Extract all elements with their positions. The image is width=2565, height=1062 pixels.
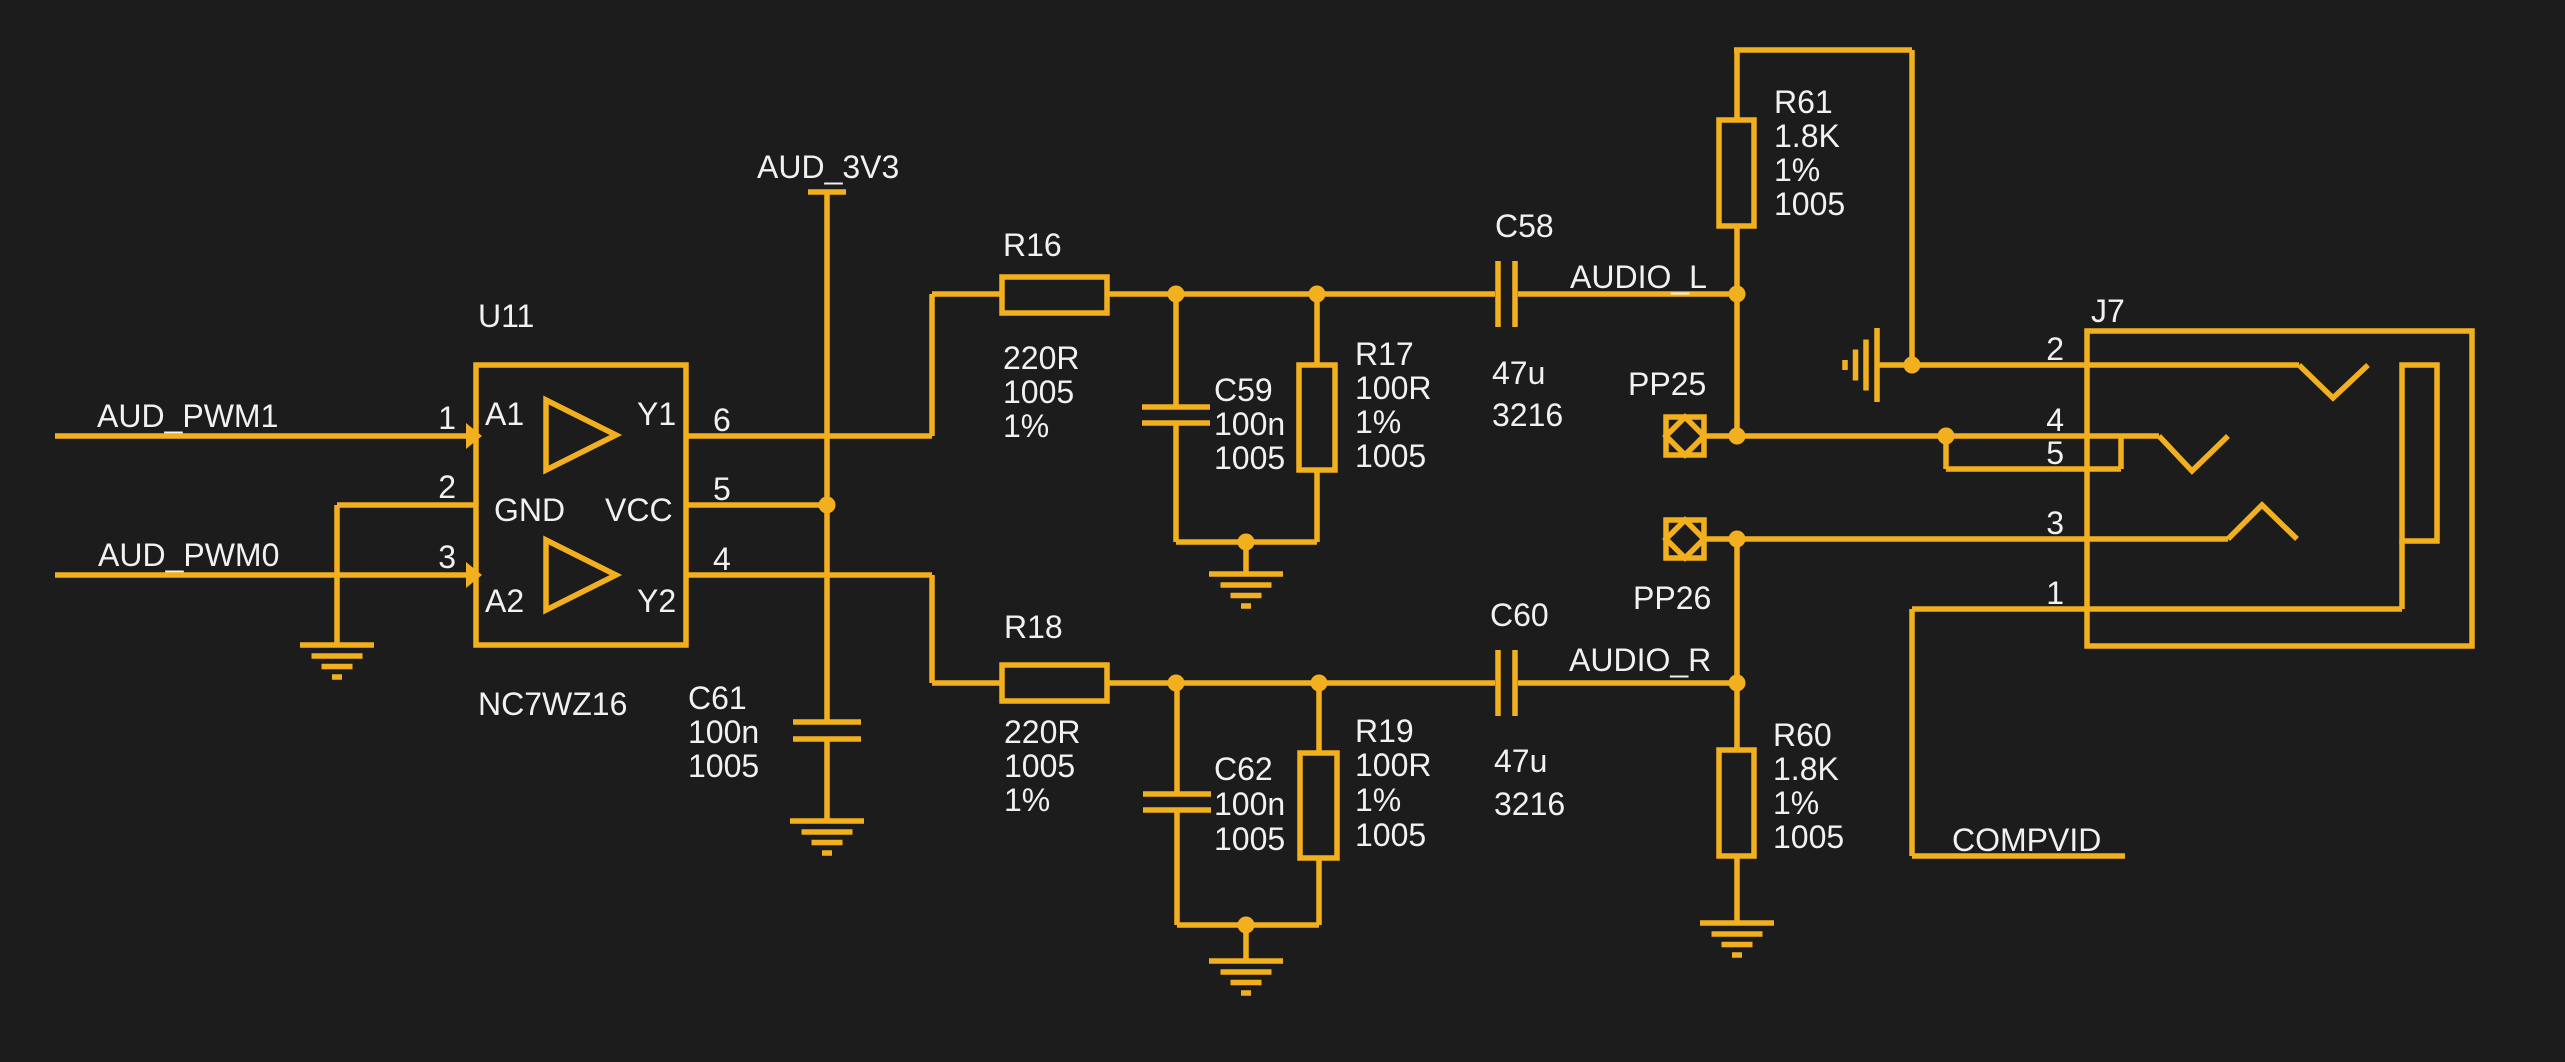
svg-text:R19: R19 [1355,713,1414,749]
wire C59/R17 bottom node [1176,539,1317,545]
capacitor C61 [793,722,861,739]
wire down to pin 5 level [1943,436,1949,469]
wire R61 rail down to pin 2 node [1909,50,1915,365]
test point PP25 [1666,417,1704,455]
svg-text:R16: R16 [1003,227,1062,263]
svg-text:AUD_PWM1: AUD_PWM1 [97,398,278,434]
svg-text:1005: 1005 [1004,748,1075,784]
svg-text:1005: 1005 [1773,819,1844,855]
svg-text:1005: 1005 [1003,374,1074,410]
wire junction down to R19 [1316,683,1322,753]
svg-text:1%: 1% [1355,782,1401,818]
svg-text:1005: 1005 [1214,440,1285,476]
wire R19 to bottom node [1316,858,1322,925]
junction pin4/pin5 split [1938,428,1955,445]
svg-text:5: 5 [713,471,731,507]
wire AUDIO_R down to R60 [1734,683,1740,750]
svg-text:5: 5 [2046,435,2064,471]
junction bottom node left channel [1238,534,1255,551]
wire PP26 to jack pin 3 [1704,536,2228,542]
svg-text:C58: C58 [1495,208,1554,244]
svg-text:3: 3 [438,539,456,575]
svg-text:3: 3 [2046,505,2064,541]
resistor R61 [1719,120,1754,226]
wire pin 4 down to R18 [929,575,935,683]
wire to R18 left [932,680,1002,686]
wire junction down to C62 [1174,683,1180,794]
svg-text:GND: GND [494,492,565,528]
wire R60 to ground [1734,856,1740,923]
resistor R17 [1299,365,1335,470]
svg-text:U11: U11 [478,298,534,334]
svg-text:100n: 100n [1214,786,1285,822]
svg-text:PP26: PP26 [1633,580,1711,616]
R19 value labels [1355,747,1432,853]
svg-text:AUDIO_R: AUDIO_R [1569,642,1711,678]
wire C59 to bottom node [1173,423,1179,542]
wire U11 pin 6 Y1 output [686,433,932,439]
wire to jack pin 5 [1946,466,2121,472]
op-amp U11 body [476,365,686,645]
svg-text:R61: R61 [1774,84,1833,120]
wire pin 2 into jack [1912,362,2299,368]
svg-text:PP25: PP25 [1628,366,1706,402]
svg-text:2: 2 [438,469,456,505]
wire U11 pin 4 Y2 output [686,572,932,578]
capacitor C62 [1143,794,1211,810]
svg-text:47u: 47u [1492,355,1545,391]
wire C58 to AUDIO_L node [1518,291,1737,297]
buffer triangle 1 [546,400,616,470]
wire C62/R19 bottom node [1177,922,1319,928]
wire AUD_3V3 down to C61 [824,192,830,722]
svg-text:6: 6 [713,402,731,438]
R60 value labels [1773,751,1844,855]
svg-text:1.8K: 1.8K [1773,751,1839,787]
wire U11 pin 2 horizontal [337,502,476,508]
C58 value labels [1492,355,1545,391]
capacitor C62 value labels [1214,751,1285,857]
svg-text:AUDIO_L: AUDIO_L [1570,259,1707,295]
svg-text:C61: C61 [688,680,747,716]
wire bottom node to ground [1243,542,1249,574]
wire C61 to ground [824,739,830,821]
wire C60 to AUDIO_R node [1518,680,1737,686]
wire R18 to C60 [1107,680,1495,686]
svg-text:C59: C59 [1214,372,1273,408]
svg-text:R17: R17 [1355,336,1414,372]
junction R16 / C59 [1168,286,1185,303]
svg-text:AUD_PWM0: AUD_PWM0 [98,537,279,573]
jack sleeve bar [2402,365,2437,541]
capacitor C58 [1498,261,1515,327]
wire AUDIO_L down to PP25 node [1734,294,1740,436]
svg-text:1%: 1% [1774,152,1820,188]
svg-text:100R: 100R [1355,747,1432,783]
svg-text:100n: 100n [1214,406,1285,442]
wire COMPVID stub [1912,853,2125,859]
wire jack pin 1 [1912,606,2402,612]
resistor R16 [1002,277,1107,313]
pin 1 input arrow [466,423,482,449]
jack pin 2 contact [2299,365,2368,398]
wire PP26 node down to AUDIO_R [1734,539,1740,683]
svg-text:AUD_3V3: AUD_3V3 [757,149,899,185]
resistor R60 [1719,750,1754,856]
connector J7 body [2087,331,2472,646]
svg-text:3216: 3216 [1492,397,1563,433]
junction AUDIO_L node [1729,286,1746,303]
wire C62 to bottom node [1174,810,1180,925]
resistor R18 [1002,665,1107,701]
svg-text:VCC: VCC [605,492,673,528]
svg-text:1005: 1005 [1774,186,1845,222]
ground below C62/R19 [1209,961,1283,993]
wire ground to pin 2 node [1877,362,1912,368]
svg-text:4: 4 [713,541,731,577]
svg-text:COMPVID: COMPVID [1952,822,2101,858]
junction R18 / C62 [1168,675,1185,692]
wire pin 6 up to R16 [929,294,935,436]
svg-text:1%: 1% [1773,785,1819,821]
wire sleeve to pin 1 [2399,541,2405,609]
svg-text:1%: 1% [1355,404,1401,440]
svg-text:R18: R18 [1004,609,1063,645]
wire AUD_PWM0 to U11 pin 3 [55,572,467,578]
svg-text:C60: C60 [1490,597,1549,633]
junction R17 top node [1309,286,1326,303]
wire junction down to C59 [1173,294,1179,407]
wire junction down to R17 [1314,294,1320,365]
wire U11 pin 5 VCC to AUD_3V3 [686,502,827,508]
wire to R16 left [932,291,1002,297]
svg-text:2: 2 [2046,331,2064,367]
svg-text:Y1: Y1 [637,396,676,432]
pin 3 input arrow [466,562,482,588]
capacitor C60 [1498,650,1515,716]
svg-text:1%: 1% [1004,782,1050,818]
R61 value labels [1774,118,1845,222]
svg-text:1.8K: 1.8K [1774,118,1840,154]
capacitor C59 value labels [1214,372,1285,476]
wire PP25 to jack pin 4 [1704,433,2159,439]
wire R61 top rail [1734,47,1912,53]
junction pin 2 node [1904,357,1921,374]
svg-text:1: 1 [2046,575,2064,611]
junction PP25 node [1729,428,1746,445]
buffer triangle 2 [546,540,616,610]
svg-text:1%: 1% [1003,408,1049,444]
wire pin 5 up to pin 4 [2118,436,2124,469]
R18 value labels [1004,714,1081,818]
svg-text:220R: 220R [1003,340,1080,376]
test point PP26 [1666,520,1704,558]
wire R61 to AUDIO_L junction [1734,226,1740,294]
svg-text:4: 4 [2046,402,2064,438]
ground below pin 2 [300,645,374,677]
svg-text:A1: A1 [485,396,524,432]
svg-text:100n: 100n [688,714,759,750]
jack pin 3 contact [2228,505,2297,539]
svg-text:C62: C62 [1214,751,1273,787]
wire down to R61 [1734,50,1740,120]
junction bottom node right channel [1238,917,1255,934]
capacitor C59 [1142,407,1210,423]
svg-text:Y2: Y2 [637,583,676,619]
svg-text:J7: J7 [2091,293,2125,329]
svg-text:220R: 220R [1004,714,1081,750]
wire AUD_PWM1 to U11 pin 1 [55,433,467,439]
junction PP26 node [1729,531,1746,548]
R17 value labels [1355,370,1432,474]
svg-text:3216: 3216 [1494,786,1565,822]
junction VCC / AUD_3V3 [819,497,836,514]
R16 value labels [1003,340,1080,444]
ground below R60 [1700,923,1774,955]
power flag bar AUD_3V3 [808,189,846,195]
ground below C61 [790,821,864,853]
wire pin 2 down to ground [334,505,340,645]
ground below C59/R17 [1209,574,1283,606]
svg-text:1005: 1005 [1355,817,1426,853]
wire R16 to C58 [1107,291,1495,297]
svg-text:1005: 1005 [688,748,759,784]
svg-text:100R: 100R [1355,370,1432,406]
svg-text:R60: R60 [1773,717,1832,753]
svg-text:NC7WZ16: NC7WZ16 [478,686,627,722]
wire pin 1 down to COMPVID [1909,609,1915,856]
wire R17 to bottom node [1314,470,1320,542]
svg-text:1: 1 [438,400,456,436]
jack pin 4 contact [2159,436,2228,471]
svg-text:1005: 1005 [1355,438,1426,474]
rotated ground at jack pin 2 [1845,328,1877,402]
junction AUDIO_R node [1729,675,1746,692]
svg-text:A2: A2 [485,583,524,619]
junction R19 top node [1311,675,1328,692]
resistor R19 [1300,753,1337,858]
capacitor C61 value labels [688,680,759,784]
svg-text:1005: 1005 [1214,821,1285,857]
svg-text:47u: 47u [1494,743,1547,779]
wire bottom node to ground right [1243,925,1249,961]
